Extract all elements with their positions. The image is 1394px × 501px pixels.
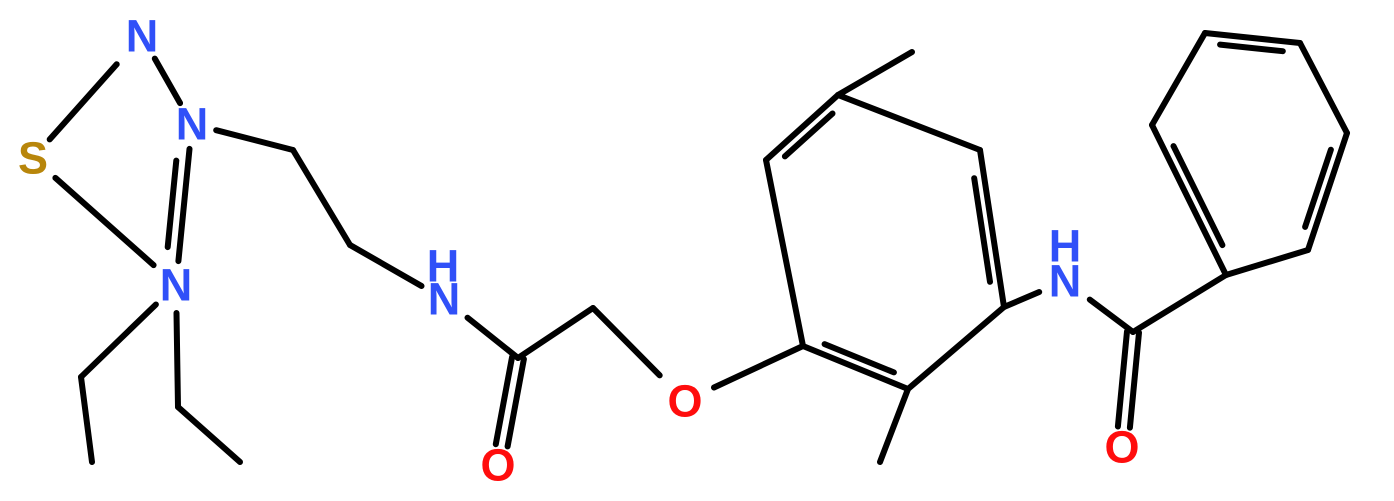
svg-text:O: O <box>1104 422 1139 473</box>
svg-text:O: O <box>480 440 515 491</box>
bond C5-Vp <box>1133 275 1226 332</box>
bond Vtl-Vbl <box>766 160 803 346</box>
bond Vp=Lv <box>1152 125 1226 275</box>
bond N4-C3 <box>468 318 519 358</box>
bond Lv-TL <box>1152 33 1205 125</box>
bond N3-C7 <box>81 305 156 378</box>
bond Vbl=Vb <box>803 344 908 389</box>
bond N3-C8 <box>177 313 179 407</box>
svg-text:O: O <box>667 376 702 427</box>
svg-text:H: H <box>1049 221 1082 272</box>
svg-text:H: H <box>427 241 460 292</box>
bond Vb-Me2 <box>880 389 908 462</box>
svg-text:S: S <box>18 133 48 184</box>
bond TL=TR <box>1205 33 1300 51</box>
bond S-N1 <box>50 64 117 139</box>
bond C1-C2 <box>293 150 350 245</box>
bond Vbr-N5 <box>1004 292 1039 307</box>
bond N5-C5 <box>1090 300 1133 332</box>
svg-text:N: N <box>160 260 193 311</box>
bond C3-C4 <box>518 308 593 358</box>
bond C3=O1 <box>496 357 524 447</box>
bond Vt=Vtl <box>766 95 838 160</box>
bond TR-Rv <box>1300 43 1347 133</box>
bond N2-C1 <box>216 130 293 150</box>
bond Vb-Vbr <box>908 307 1004 389</box>
bond N1-N2 <box>155 59 180 104</box>
bond Vt-Me1 <box>838 52 912 95</box>
bond Vtr-Vt <box>838 95 980 150</box>
svg-text:N: N <box>176 99 209 150</box>
bond Vbr=Vtr <box>974 150 1004 307</box>
bond C2-N4 <box>350 245 422 286</box>
bond Rv=BR <box>1305 133 1347 250</box>
bond S-N3 <box>55 178 153 265</box>
bond BR-Vp <box>1226 250 1308 275</box>
bond C8-C10 <box>178 407 240 462</box>
bond O2-Vbl <box>714 346 803 388</box>
bond N2=N3 <box>168 149 190 261</box>
svg-text:N: N <box>126 11 159 62</box>
bond C7-C9 <box>81 377 92 462</box>
bond C4-O2 <box>593 308 660 375</box>
bond C5=O3 <box>1118 331 1139 427</box>
